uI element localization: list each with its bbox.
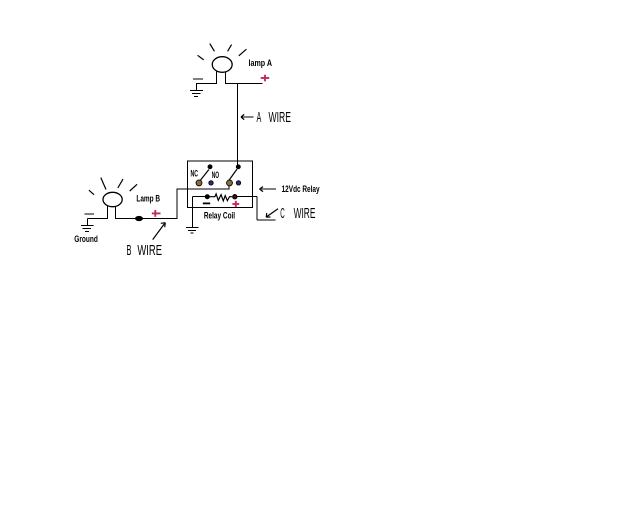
svg-text:Relay Coil: Relay Coil	[204, 211, 235, 221]
svg-text:12Vdc Relay: 12Vdc Relay	[282, 184, 320, 194]
svg-text:A: A	[257, 109, 262, 126]
svg-text:NC: NC	[191, 169, 199, 179]
svg-text:WIRE: WIRE	[137, 242, 162, 259]
svg-text:WIRE: WIRE	[294, 205, 316, 222]
svg-text:C: C	[280, 205, 285, 222]
svg-text:B: B	[127, 242, 132, 259]
svg-text:Lamp B: Lamp B	[136, 194, 160, 204]
svg-text:lamp A: lamp A	[249, 58, 273, 68]
svg-text:NO: NO	[212, 170, 219, 180]
svg-text:WIRE: WIRE	[269, 109, 292, 126]
svg-text:Ground: Ground	[74, 234, 98, 244]
